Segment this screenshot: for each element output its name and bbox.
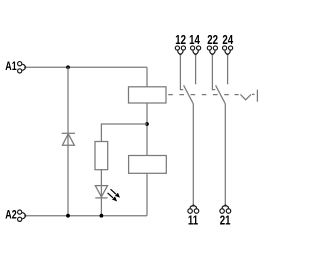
linkage end bar [256,90,258,102]
junction node coil/LED branch [145,122,149,126]
wire resistor to LED [100,170,102,216]
wire coil branch vertical (A1 to coil) [146,67,148,87]
resistor R1 [95,142,108,170]
terminal 24 [223,46,233,56]
junction node A2/LED [100,214,104,218]
terminal A2 [18,210,27,221]
dashed mechanical linkage [168,94,229,96]
svg-text:A2: A2 [5,208,16,222]
wire junction to resistor [101,124,147,142]
junction node A2/diode [66,214,70,218]
terminal 12 [175,46,185,56]
wire contact 14 [195,55,197,85]
switch arm pole 1 [184,85,194,104]
wire common 21 [224,104,226,206]
junction node A1/diode [66,65,70,69]
diode V1 (freewheel, cathode up) [62,133,75,145]
wire A1 horizontal [26,66,147,68]
terminal 21 [220,204,231,213]
svg-text:21: 21 [220,215,231,228]
LED light arrows [108,189,120,201]
wire coil to junction [146,103,148,156]
wire common 11 [192,104,194,206]
terminal 11 [188,204,199,213]
wire contact 22 [212,55,215,90]
wire contact 12 [180,55,183,90]
wire contact 24 [227,55,229,85]
relay coil K1 [129,87,167,103]
svg-text:A1: A1 [5,60,16,74]
terminal A1 [18,62,27,73]
wire A2 horizontal [26,215,147,217]
linkage dash [235,94,239,96]
svg-text:11: 11 [188,215,198,228]
terminal 22 [207,46,217,56]
LED indicator [95,186,107,198]
terminal 14 [191,46,201,56]
electronics block U1 [129,156,167,174]
wire diode branch vertical [67,67,69,215]
wire block to A2 [146,173,148,215]
switch arm pole 2 [216,85,226,104]
manual test actuator [240,94,254,99]
